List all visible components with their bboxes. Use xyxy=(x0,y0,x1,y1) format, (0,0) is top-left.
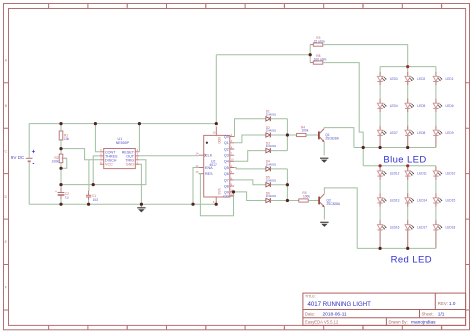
junction red anode bus col2 xyxy=(406,164,409,167)
U1 pin numbers xyxy=(100,148,138,164)
capacitor C1 103 xyxy=(86,191,98,202)
U2 VDD stub pin 16 xyxy=(213,127,221,145)
U2 pin names xyxy=(205,135,229,198)
svg-text:1N4001: 1N4001 xyxy=(266,144,277,148)
wire RES loop to Q9 xyxy=(199,174,234,216)
svg-text:6: 6 xyxy=(441,4,443,8)
svg-text:5: 5 xyxy=(362,326,364,330)
LED LED14 xyxy=(405,193,427,206)
svg-text:Q6: Q6 xyxy=(224,172,229,176)
svg-text:TITLE:: TITLE: xyxy=(305,295,316,299)
wire C1 riser xyxy=(88,160,90,191)
svg-text:1N4001: 1N4001 xyxy=(266,112,277,116)
diode D6 1N4001 xyxy=(266,191,277,203)
wire Q1 collector to blue bus xyxy=(324,128,354,148)
svg-text:2018-06-11: 2018-06-11 xyxy=(323,312,348,318)
diode D1 1N4001 xyxy=(266,110,277,122)
svg-text:100 ohm: 100 ohm xyxy=(314,57,327,61)
svg-text:EasyEDA V5.5.12: EasyEDA V5.5.12 xyxy=(305,320,339,325)
LED LED12 xyxy=(377,167,399,180)
wire RESET to rail xyxy=(138,124,140,152)
svg-text:1: 1 xyxy=(48,4,50,8)
wire VDD riser and R3 feed xyxy=(216,55,310,124)
svg-text:RES: RES xyxy=(205,172,213,176)
svg-text:LED11: LED11 xyxy=(417,172,427,176)
wire THRES-TRIG node xyxy=(61,160,146,185)
potentiometer R2 xyxy=(52,154,67,163)
svg-text:Red LED: Red LED xyxy=(391,255,432,266)
LED LED1 xyxy=(433,72,454,85)
wire R8 left lead xyxy=(310,62,313,64)
ground at Q1 xyxy=(320,158,328,163)
wire red cathode bus xyxy=(357,247,436,249)
LED LED18 xyxy=(433,220,455,248)
junction C2-GND rail xyxy=(59,203,62,206)
wire R1 top lead xyxy=(60,124,62,131)
svg-text:VCC: VCC xyxy=(105,163,113,167)
wire blue anode bus xyxy=(380,66,436,68)
junction THRES-TRIG node xyxy=(92,183,95,186)
diode D4 1N4001 xyxy=(266,160,277,172)
junction red anode bus col1 xyxy=(379,164,382,167)
wire blue LED column 1 xyxy=(379,67,381,148)
LED LED6 xyxy=(433,99,454,112)
wire Q9 to D6 xyxy=(234,192,266,201)
svg-text:2: 2 xyxy=(126,326,128,330)
resistor R8 100 ohm xyxy=(313,54,326,64)
svg-text:Q0: Q0 xyxy=(224,135,229,139)
wire R2 bottom to node xyxy=(60,162,62,184)
svg-text:3: 3 xyxy=(205,4,207,8)
resistor R1 xyxy=(59,131,69,141)
junction R2-C2 node xyxy=(59,183,62,186)
LED LED15 xyxy=(433,193,455,206)
junction R1-R2-DISCH node xyxy=(59,147,62,150)
svg-text:1: 1 xyxy=(48,326,50,330)
svg-text:LED17: LED17 xyxy=(417,225,427,229)
LED LED7 xyxy=(377,126,398,147)
wire battery left rail xyxy=(28,124,30,205)
wire red LED column 1 xyxy=(379,166,381,249)
svg-text:1N4001: 1N4001 xyxy=(266,163,277,167)
svg-text:100k: 100k xyxy=(303,194,310,198)
svg-text:4: 4 xyxy=(283,326,285,330)
LED LED11 xyxy=(405,167,427,180)
wire R3 left lead xyxy=(310,44,313,46)
svg-text:LED14: LED14 xyxy=(417,198,427,202)
wire ENA to ground rail xyxy=(193,168,199,205)
svg-text:manojndias: manojndias xyxy=(411,320,436,326)
junction R8 line-blue cathode bus xyxy=(362,146,365,149)
wire red LED column 2 xyxy=(407,166,409,249)
svg-text:LED5: LED5 xyxy=(417,104,425,108)
resistor R5 100k xyxy=(299,191,311,202)
svg-text:Q5: Q5 xyxy=(224,166,229,170)
junction ENA-GND rail xyxy=(191,203,194,206)
svg-text:3: 3 xyxy=(205,326,207,330)
junction red cathode bus col2 xyxy=(406,247,409,250)
LED LED16 xyxy=(377,220,399,248)
wire red LED column 3 xyxy=(435,166,437,249)
svg-text:103: 103 xyxy=(93,198,99,202)
svg-text:LED10: LED10 xyxy=(446,172,456,176)
svg-text:1N4001: 1N4001 xyxy=(266,178,277,182)
wire U1 GND down xyxy=(139,164,141,204)
junction D5 cathode bus xyxy=(286,183,289,186)
junction R2 wiper loop xyxy=(59,167,62,170)
wire CONT from rail xyxy=(95,124,99,152)
svg-text:D: D xyxy=(4,195,7,199)
svg-text:LED12: LED12 xyxy=(390,172,400,176)
junction blue anode bus feed xyxy=(406,65,409,68)
wire R3 R8 tee xyxy=(309,45,311,63)
LED LED13 xyxy=(377,193,399,206)
svg-text:Sheet:: Sheet: xyxy=(422,312,434,317)
junction D6 cathode bus-R5 xyxy=(286,199,289,202)
LED LED10 xyxy=(433,167,455,180)
svg-text:2SC828A: 2SC828A xyxy=(325,137,340,141)
wire C2 bottom lead xyxy=(60,199,62,204)
junction U1 GND-rail xyxy=(140,203,143,206)
svg-text:LED1: LED1 xyxy=(446,77,454,81)
wire R5 to Q2 base xyxy=(308,200,318,202)
svg-text:Drawn By:: Drawn By: xyxy=(389,320,408,325)
svg-text:1/1: 1/1 xyxy=(438,312,445,318)
LED LED17 xyxy=(405,220,427,248)
IC U2 4017 box xyxy=(204,135,230,197)
LED LED4 xyxy=(377,99,398,112)
svg-text:100k: 100k xyxy=(301,128,308,132)
svg-text:LED8: LED8 xyxy=(417,131,425,135)
svg-text:22 ohm: 22 ohm xyxy=(314,39,325,43)
wire Q4 to D3 xyxy=(234,151,266,162)
svg-text:LED6: LED6 xyxy=(446,104,454,108)
ground at Q2 xyxy=(320,222,328,227)
U2 right pin stubs xyxy=(230,137,234,196)
svg-text:10k: 10k xyxy=(64,137,70,141)
junction blue cathode bus col2 xyxy=(406,146,409,149)
wire Q1 emitter down xyxy=(323,142,325,156)
wire R1 bottom to node xyxy=(60,139,62,149)
wire blue cathode bus xyxy=(354,147,436,149)
svg-text:LED2: LED2 xyxy=(417,77,425,81)
svg-text:VSS: VSS xyxy=(217,188,221,194)
svg-text:LED13: LED13 xyxy=(390,198,400,202)
wire Q0 to D1 xyxy=(234,119,266,137)
svg-text:Q1: Q1 xyxy=(224,141,229,145)
junction red cathode bus col1 xyxy=(379,247,382,250)
svg-text:CO: CO xyxy=(223,194,229,198)
svg-text:REV:: REV: xyxy=(438,301,448,306)
op-amp U1 NE555P box xyxy=(104,137,136,169)
wire OUT to CLK xyxy=(139,155,198,157)
svg-text:4: 4 xyxy=(283,4,285,8)
junction RESET riser-VCC rail xyxy=(138,122,141,125)
junction blue cathode bus col1 xyxy=(379,146,382,149)
svg-text:LED18: LED18 xyxy=(446,225,456,229)
svg-text:Q7: Q7 xyxy=(224,178,229,182)
svg-text:LED4: LED4 xyxy=(390,104,398,108)
junction CONT riser-VCC rail xyxy=(94,122,97,125)
wire R2 wiper loop xyxy=(61,158,67,168)
U1 left pin stubs xyxy=(100,152,104,164)
svg-text:Q8: Q8 xyxy=(224,185,229,189)
U2 pin numbers xyxy=(196,133,235,197)
svg-text:LED7: LED7 xyxy=(390,131,398,135)
LED LED8 xyxy=(405,126,426,147)
svg-text:2: 2 xyxy=(126,4,128,8)
svg-text:-: - xyxy=(32,162,34,168)
U2 left pin stubs xyxy=(199,155,204,174)
LED LED3 xyxy=(377,72,398,85)
diode D3 1N4001 xyxy=(266,141,277,153)
svg-text:Blue LED: Blue LED xyxy=(383,154,426,165)
wire red anode bus xyxy=(363,165,436,167)
junction R3-R8 feed xyxy=(309,53,312,56)
svg-text:LED15: LED15 xyxy=(446,198,456,202)
junction VSS-GND rail xyxy=(215,203,218,206)
svg-text:9V DC: 9V DC xyxy=(11,155,25,160)
title block xyxy=(303,293,466,326)
svg-text:+: + xyxy=(55,189,57,193)
svg-text:Date:: Date: xyxy=(305,312,315,317)
wire C2 top lead xyxy=(60,185,62,189)
svg-text:CLK: CLK xyxy=(205,154,213,158)
wire R3 to blue grid feed xyxy=(323,45,408,67)
wire bus to R5 xyxy=(287,200,298,202)
capacitor C2 1u xyxy=(55,188,69,199)
CIRCUIT xyxy=(11,124,217,213)
wire C1 bottom lead xyxy=(88,200,90,204)
svg-text:LED9: LED9 xyxy=(446,131,454,135)
svg-text:LED3: LED3 xyxy=(390,77,398,81)
diode D2 1N4001 xyxy=(266,126,277,138)
svg-text:DISCH: DISCH xyxy=(105,158,117,162)
transistor Q2 2SC828A xyxy=(319,194,341,207)
diode D5 1N4001 xyxy=(266,176,277,188)
resistor R3 22 ohm xyxy=(313,36,325,46)
svg-text:NE555P: NE555P xyxy=(116,141,130,145)
svg-text:1.0: 1.0 xyxy=(449,301,456,306)
ground at U1 xyxy=(137,204,145,212)
svg-text:1N4001: 1N4001 xyxy=(266,129,277,133)
svg-text:100k: 100k xyxy=(52,160,59,164)
svg-text:5: 5 xyxy=(362,4,364,8)
svg-text:LED16: LED16 xyxy=(390,225,400,229)
LED LED9 xyxy=(433,126,454,147)
svg-text:1N4001: 1N4001 xyxy=(266,194,277,198)
wire THRES stub xyxy=(93,156,100,185)
wire Q1 to D2 xyxy=(234,135,266,143)
svg-text:+: + xyxy=(32,150,36,156)
svg-text:TRIG: TRIG xyxy=(125,158,134,162)
U2 VSS stub pin 8 xyxy=(213,188,221,204)
wire GND bottom rail xyxy=(29,203,216,205)
wire D4-D6 cathode bus xyxy=(270,169,287,201)
resistor R4 100k xyxy=(297,125,309,136)
svg-text:Q4: Q4 xyxy=(224,160,229,164)
svg-text:GND: GND xyxy=(126,163,135,167)
wire Q2 collector to red bus xyxy=(324,188,357,249)
junction R1-VCC rail xyxy=(59,122,62,125)
wire blue LED column 2 xyxy=(407,67,409,148)
wire node to DISCH xyxy=(61,149,100,160)
junction D2 cathode bus-R4 xyxy=(286,133,289,136)
U1 right pin stubs xyxy=(135,152,139,164)
svg-text:6: 6 xyxy=(441,326,443,330)
wire Q5 to D4 xyxy=(234,168,266,169)
svg-text:4017 RUNNING LIGHT: 4017 RUNNING LIGHT xyxy=(308,301,372,308)
U1 pin names xyxy=(105,150,135,166)
wire blue LED column 3 xyxy=(435,67,437,148)
LED LED5 xyxy=(405,99,426,112)
wire R8 to red grid feed xyxy=(323,63,363,166)
svg-text:ENA: ENA xyxy=(205,166,213,170)
wire bus to R4 xyxy=(287,134,296,136)
battery BT1 9V DC xyxy=(26,150,36,168)
LED LED2 xyxy=(405,72,426,85)
wire R2 top lead xyxy=(60,149,62,154)
junction C1-GND rail xyxy=(87,203,90,206)
wire Q7 to D5 xyxy=(234,180,266,185)
transistor Q1 2SC828A xyxy=(319,129,340,142)
svg-text:Q3: Q3 xyxy=(224,154,229,158)
svg-text:1u: 1u xyxy=(65,195,69,199)
wire Q2 emitter down xyxy=(323,207,325,220)
svg-text:C: C xyxy=(4,149,7,153)
svg-text:Q2: Q2 xyxy=(224,147,229,151)
wire D1-D3 cathode bus xyxy=(270,119,287,151)
junction VDD riser-VCC rail xyxy=(215,122,218,125)
junction Q9-RES loop xyxy=(232,190,235,193)
wire +9V top rail xyxy=(29,123,216,125)
svg-text:2SC828A: 2SC828A xyxy=(326,202,341,206)
wire R4 to Q1 base xyxy=(306,134,318,136)
svg-text:VDD: VDD xyxy=(217,137,221,144)
